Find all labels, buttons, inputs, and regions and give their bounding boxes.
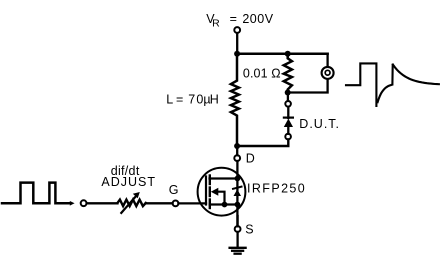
wire top rail to probe top xyxy=(326,54,328,67)
label dif/dt xyxy=(111,164,140,178)
output waveform pulse and recovery xyxy=(346,63,439,106)
wire VR terminal to top rail xyxy=(236,34,238,54)
wire G terminal to gate xyxy=(179,202,207,204)
Q1 body diode triangle xyxy=(234,189,242,196)
terminal DUT cathode (open circle) xyxy=(285,134,291,140)
transistor Q1 channel bottom dash xyxy=(209,200,211,209)
svg-text:VR=200V: VR=200V xyxy=(206,12,273,30)
node Q1 drain junction xyxy=(235,176,241,182)
terminal DUT anode (open circle) xyxy=(285,101,291,107)
wire drain lead into MOSFET xyxy=(236,161,238,179)
wire S terminal to ground xyxy=(236,232,238,247)
wire resistor bottom to probe bottom xyxy=(288,79,328,92)
terminal VR (open circle) xyxy=(234,27,240,33)
wire Q1 drain internal xyxy=(210,177,238,179)
label ADJUST xyxy=(101,175,156,189)
input wave arrowhead xyxy=(70,201,75,206)
svg-text:ADJUST: ADJUST xyxy=(101,175,156,189)
transistor Q1 body arrow xyxy=(211,188,219,196)
node resistor bottom junction xyxy=(285,90,291,96)
diode D.U.T. triangle xyxy=(284,119,293,127)
terminal node G (open circle) xyxy=(173,201,179,207)
wire Q1 body lead xyxy=(218,192,225,205)
current probe outer circle xyxy=(322,67,334,79)
wire D junction to D terminal xyxy=(236,146,238,155)
label D xyxy=(246,151,255,165)
node D junction xyxy=(234,143,240,149)
ground xyxy=(230,248,246,254)
label IRFP250 xyxy=(247,182,306,196)
potentiometer arrow shaft xyxy=(121,195,137,213)
svg-text:D.U.T.: D.U.T. xyxy=(299,117,340,131)
svg-text:IRFP250: IRFP250 xyxy=(247,182,306,196)
wire input terminal to potentiometer xyxy=(87,202,118,204)
transistor Q1 body circle xyxy=(198,168,246,216)
wire Q1 source internal xyxy=(210,203,238,205)
svg-text:0.01 Ω: 0.01 Ω xyxy=(243,66,281,80)
wire top rail xyxy=(237,53,328,56)
node top-left junction xyxy=(234,51,240,57)
node top rail to resistor junction xyxy=(285,51,291,57)
resistor R1 0.01 ohm xyxy=(284,54,292,93)
terminal node D (open circle) xyxy=(234,155,240,161)
wire DUT bottom lead to bottom rail xyxy=(237,139,288,146)
diode D.U.T. cathode bar xyxy=(284,116,293,118)
terminal input (open circle) xyxy=(81,200,87,206)
current probe inner circle xyxy=(325,70,330,75)
wire DUT terminal to diode xyxy=(287,107,289,118)
Q1 body diode cathode bar xyxy=(233,187,242,189)
transistor Q1 drain-source line xyxy=(236,179,238,227)
node Q1 source junction xyxy=(235,202,241,208)
inductor L1 L = 70uH xyxy=(231,54,239,146)
label 0.01 ohm xyxy=(243,66,281,80)
svg-text:D: D xyxy=(246,151,255,165)
transistor Q1 channel middle dash xyxy=(209,188,211,197)
svg-text:G: G xyxy=(169,183,179,197)
wire potentiometer to G terminal xyxy=(146,202,173,204)
potentiometer dif/dt adjust zigzag xyxy=(118,200,146,207)
svg-text:L=70µH: L=70µH xyxy=(166,93,219,107)
transistor Q1 channel top dash xyxy=(209,176,211,185)
wire DUT branch top lead xyxy=(287,93,289,101)
transistor Q1 gate bar xyxy=(205,177,207,205)
terminal node S (open circle) xyxy=(235,226,241,232)
wire source lead to S terminal xyxy=(236,216,238,226)
potentiometer arrowhead xyxy=(133,192,140,198)
label D.U.T. xyxy=(299,117,340,131)
label VR = 200V xyxy=(206,12,273,30)
input square wave xyxy=(2,183,70,204)
node Q1 body-source junction xyxy=(222,202,228,208)
label S xyxy=(245,223,253,237)
label G xyxy=(169,183,179,197)
label L = 70uH xyxy=(166,93,219,107)
wire diode to bottom terminal xyxy=(287,127,289,134)
svg-text:S: S xyxy=(245,223,253,237)
